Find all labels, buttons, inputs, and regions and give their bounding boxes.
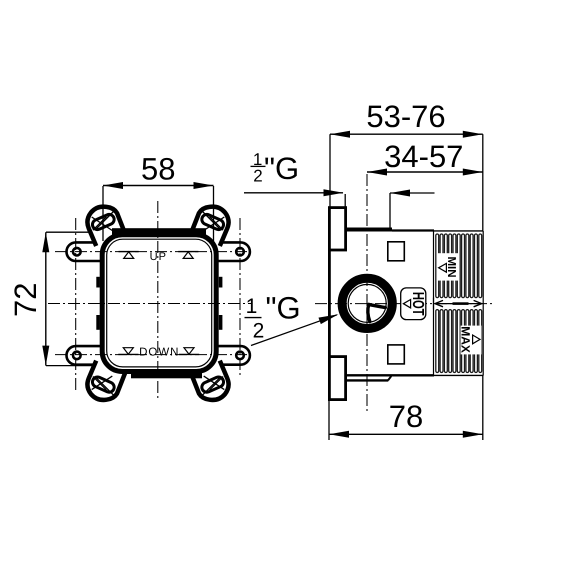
side port circle ring (342, 278, 392, 328)
centerline vertical (side) (366, 174, 368, 413)
svg-text:58: 58 (141, 152, 175, 187)
DOWN triangle left (118, 348, 138, 355)
dimension 78 (329, 433, 483, 435)
dimension 34-57 (367, 171, 483, 173)
lever indicator (369, 305, 385, 308)
svg-text:"G: "G (266, 291, 301, 326)
svg-text:HOT: HOT (409, 292, 426, 316)
centerline row UP (55, 251, 250, 253)
dimension 58: left arrow (103, 182, 123, 189)
side port inner thin circle (348, 284, 386, 322)
body top thick edge (front part) (345, 228, 392, 232)
left edge bar upper (96, 277, 100, 288)
MIN label (438, 253, 459, 280)
mounting tab bottom-left (67, 346, 112, 365)
svg-text:78: 78 (389, 399, 423, 434)
centerline vertical right holes (239, 218, 241, 377)
thread zone top thin edge (434, 230, 484, 232)
svg-text:2: 2 (253, 166, 262, 185)
body top edge (rear part) (392, 229, 434, 231)
ear top-right (188, 207, 229, 246)
svg-text:1: 1 (246, 295, 258, 318)
half inch G label middle (245, 291, 301, 343)
DOWN triangle right (179, 348, 199, 355)
centerline vertical left holes (75, 218, 77, 390)
dimension 58: line (103, 185, 214, 187)
body bottom step connector (388, 376, 391, 380)
svg-text:DOWN: DOWN (139, 347, 179, 359)
leader top (244, 192, 343, 194)
centerline horizontal mid (front) (48, 303, 252, 305)
bottom lip (131, 371, 202, 379)
thread zone left boundary (433, 231, 435, 376)
mounting tab bottom-right (205, 346, 250, 365)
centerline horizontal (side) (315, 303, 493, 305)
wall plate left edge (328, 250, 331, 357)
mounting tab top-left (67, 242, 112, 261)
threads: stadium slots lower (436, 310, 482, 373)
thread depth double arrow (435, 303, 482, 305)
right edge bar lower (219, 315, 223, 330)
centerline row DOWN (55, 354, 250, 356)
svg-text:72: 72 (8, 283, 43, 317)
dimension 58: extension right (213, 186, 215, 241)
dimension 58: extension left (102, 186, 104, 241)
thread boundary lines crossing band (433, 298, 435, 310)
dimension 53-76 (330, 133, 483, 135)
right edge bar upper (219, 277, 223, 288)
svg-text:"G: "G (264, 151, 299, 186)
dimension 72: top arrow (42, 232, 49, 252)
mounting tab top-right (205, 242, 250, 261)
UP triangle left (119, 252, 139, 259)
thread zone bottom thin edge (434, 374, 484, 376)
leader middle (251, 315, 337, 346)
svg-text:2: 2 (253, 319, 265, 342)
wall plate bottom tab (329, 357, 345, 400)
half inch G label top (251, 150, 300, 186)
body bottom edge (345, 374, 434, 376)
dimension 72: line (45, 232, 47, 365)
valve body front: inner thin line (107, 239, 212, 367)
wall plate top tab (329, 208, 345, 250)
dimension 72 extension bottom (under ears) (46, 365, 99, 367)
ports squares (388, 242, 405, 261)
dimension 72: bottom arrow (42, 346, 49, 366)
svg-text:MIN: MIN (445, 256, 457, 277)
valve body front: outer thick rounded square (102, 235, 216, 372)
svg-text:34-57: 34-57 (384, 139, 463, 174)
threads: stadium slots upper (436, 234, 482, 298)
centerline vertical (front) (157, 201, 159, 401)
top lip (112, 228, 206, 236)
HOT label (401, 288, 426, 320)
dimension 58: right arrow (194, 182, 214, 189)
MAX label (459, 326, 482, 355)
ear top-left (87, 207, 128, 246)
UP triangle right (178, 252, 198, 259)
wall reference arrow (390, 192, 435, 194)
dimension 72 extension top (under ears) (46, 231, 99, 233)
left edge bar lower (96, 315, 100, 330)
body bottom lower line (346, 379, 389, 381)
svg-text:UP: UP (150, 251, 167, 263)
svg-text:MAX: MAX (459, 326, 473, 353)
ear bottom-left (87, 361, 128, 400)
ear bottom-right (188, 361, 229, 400)
svg-text:53-76: 53-76 (366, 99, 445, 134)
